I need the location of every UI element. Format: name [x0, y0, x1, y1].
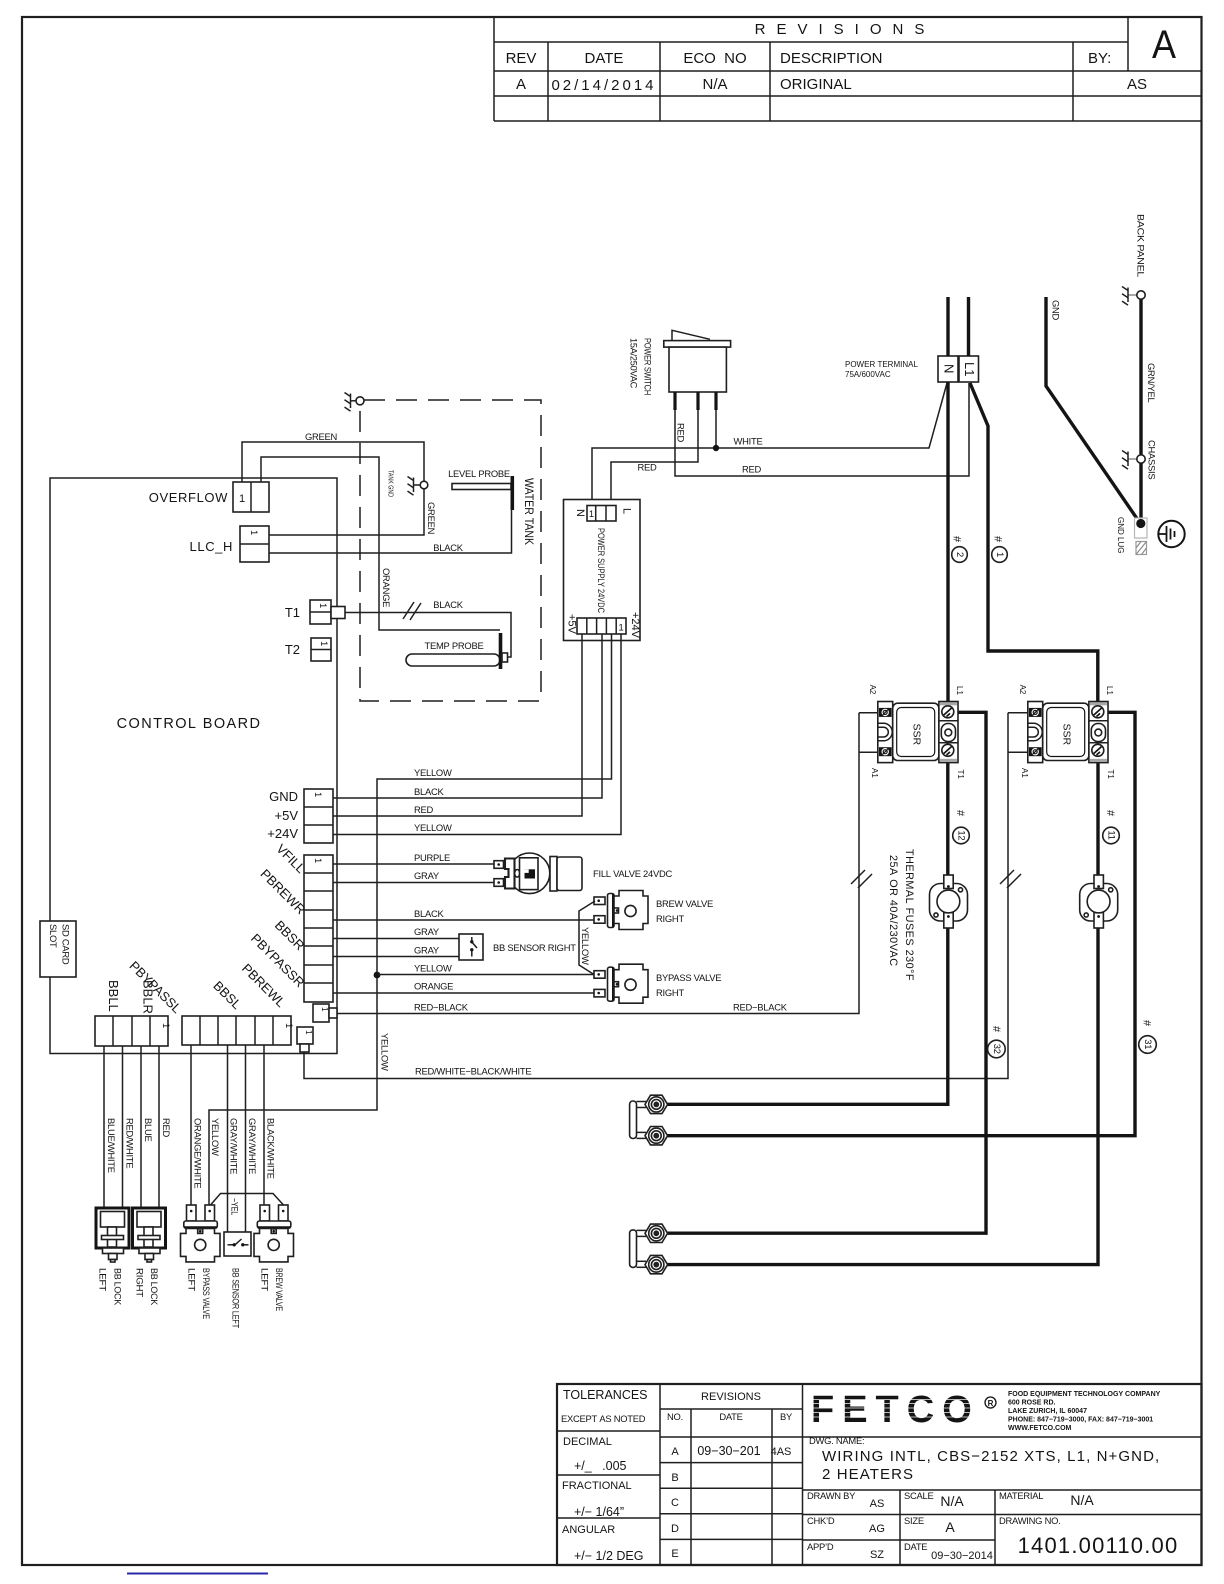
svg-text:SD CARD: SD CARD: [60, 924, 71, 965]
svg-text:1: 1: [313, 858, 324, 863]
wire SSR1 A1 stub: [859, 751, 878, 753]
wire SSR2 A2 stub: [1008, 712, 1028, 714]
svg-text:T1: T1: [1106, 770, 1115, 780]
svg-text:AG: AG: [869, 1523, 885, 1535]
svg-text:CHK’D: CHK’D: [807, 1515, 835, 1526]
svg-text:GND LUG: GND LUG: [1116, 517, 1125, 553]
svg-text:A1: A1: [870, 768, 879, 778]
svg-text:RED: RED: [637, 462, 657, 473]
svg-text:+5V: +5V: [275, 808, 299, 823]
wire red to bb lock right: [158, 1046, 160, 1207]
wire -yel jumper: [211, 1194, 284, 1206]
svg-text:FRACTIONAL: FRACTIONAL: [562, 1480, 632, 1492]
svg-text:GRAY/WHITE: GRAY/WHITE: [247, 1118, 258, 1174]
svg-text:+/_ .005: +/_ .005: [574, 1459, 627, 1473]
svg-text:YELLOW: YELLOW: [580, 927, 591, 965]
bb lock right: [133, 1208, 166, 1262]
svg-text:WWW.FETCO.COM: WWW.FETCO.COM: [1008, 1425, 1072, 1432]
svg-text:DECIMAL: DECIMAL: [563, 1436, 612, 1448]
svg-text:AS: AS: [870, 1498, 885, 1510]
svg-text:N/A: N/A: [940, 1493, 964, 1509]
svg-text:12: 12: [957, 830, 968, 840]
svg-text:L1: L1: [962, 362, 977, 376]
svg-text:ECO NO: ECO NO: [683, 50, 746, 67]
svg-text:2: 2: [955, 552, 966, 557]
water tank dashed box: [360, 400, 541, 701]
svg-text:N/A: N/A: [1070, 1492, 1094, 1508]
wire orange overflow pin2 to temp probe: [261, 457, 500, 630]
wire break on SSR1 control wire: [851, 870, 872, 888]
connector OVERFLOW: [233, 482, 269, 512]
svg-text:02/14/2014: 02/14/2014: [551, 77, 656, 94]
svg-text:GRN/YEL: GRN/YEL: [1146, 363, 1157, 402]
svg-text:ORIGINAL: ORIGINAL: [780, 76, 852, 93]
svg-text:LEVEL PROBE: LEVEL PROBE: [448, 468, 510, 479]
wire gray/white to bb sensor left: [227, 1045, 229, 1232]
svg-text:THERMAL FUSES 230°F: THERMAL FUSES 230°F: [903, 849, 915, 981]
bb lock left: [96, 1208, 129, 1262]
svg-text:SCALE: SCALE: [904, 1490, 934, 1501]
svg-text:BLACK: BLACK: [414, 908, 444, 919]
svg-text:BB LOCK: BB LOCK: [149, 1268, 160, 1306]
svg-text:A: A: [1152, 23, 1176, 67]
svg-text:31: 31: [1143, 1039, 1154, 1049]
wire gray/white 2 to bb sensor left: [245, 1045, 247, 1232]
wire black pbrewr to brew valve right: [333, 919, 594, 921]
wire red switch pin1 to L1: [675, 383, 969, 476]
bb sensor right box: [459, 934, 483, 960]
heater 1: [630, 1095, 668, 1145]
svg-text:TANK GND: TANK GND: [387, 470, 394, 497]
wire purple vfill to fill valve: [333, 863, 494, 865]
svg-text:−YEL: −YEL: [230, 1198, 241, 1215]
FETCO registered mark: [985, 1397, 996, 1408]
svg-text:A: A: [671, 1446, 679, 1458]
svg-text:ORANGE/WHITE: ORANGE/WHITE: [193, 1118, 204, 1188]
wire yellow psu4 to junction: [209, 634, 612, 1205]
svg-text:N: N: [574, 509, 586, 517]
connector BBLL/BBLR: [95, 1016, 168, 1046]
node circle tank corner gnd: [356, 397, 364, 405]
svg-text:EXCEPT AS NOTED: EXCEPT AS NOTED: [561, 1413, 646, 1424]
svg-text:GREEN: GREEN: [305, 431, 337, 442]
svg-text:RED: RED: [414, 804, 434, 815]
psu bottom connector: [577, 618, 626, 634]
svg-text:OVERFLOW: OVERFLOW: [149, 490, 228, 505]
svg-text:A1: A1: [1020, 768, 1029, 778]
svg-text:1: 1: [239, 493, 245, 505]
svg-text:N: N: [942, 364, 957, 373]
svg-text:LEFT: LEFT: [187, 1268, 198, 1292]
svg-text:T2: T2: [285, 642, 300, 657]
wire break on SSR2 control wire: [1000, 870, 1021, 888]
wire break symbol: [403, 602, 421, 620]
svg-text:1: 1: [619, 622, 624, 633]
power switch pins: [673, 392, 676, 410]
svg-text:A2: A2: [1018, 685, 1027, 695]
power switch body: [669, 347, 726, 392]
wire blue/white to bb lock left: [103, 1046, 105, 1207]
wire yellow link brew-bypass: [579, 901, 595, 975]
power switch rocker: [672, 330, 710, 340]
gnd lug: [1135, 518, 1148, 538]
svg-text:BREW VALVE: BREW VALVE: [656, 898, 713, 909]
thermal fuse 2: [1080, 875, 1118, 928]
svg-text:RIGHT: RIGHT: [135, 1268, 146, 1298]
svg-text:AS: AS: [1127, 76, 1147, 93]
brew valve left: [254, 1205, 294, 1262]
svg-text:FOOD EQUIPMENT TECHNOLOGY COMP: FOOD EQUIPMENT TECHNOLOGY COMPANY: [1008, 1391, 1161, 1398]
svg-text:C: C: [671, 1497, 679, 1509]
wire red/white to bb lock left: [122, 1046, 124, 1207]
svg-text:RED/WHITE: RED/WHITE: [125, 1118, 136, 1168]
svg-text:1401.00110.00: 1401.00110.00: [1018, 1533, 1179, 1558]
svg-text:11: 11: [1107, 830, 1118, 839]
connector A (red-black): [313, 1004, 329, 1022]
svg-text:+/− 1/2 DEG: +/− 1/2 DEG: [574, 1549, 643, 1563]
wire SSR1 A2 stub: [859, 712, 878, 714]
svg-text:+/− 1/64”: +/− 1/64”: [574, 1505, 624, 1519]
svg-text:CONTROL BOARD: CONTROL BOARD: [117, 716, 262, 732]
bb sensor left box: [224, 1232, 251, 1256]
wire orange/white to bypass valve left: [190, 1045, 192, 1205]
bypass valve left: [181, 1205, 221, 1262]
junction dot yellow: [374, 972, 381, 979]
svg-text:MATERIAL: MATERIAL: [999, 1490, 1043, 1501]
connector B (red/white-black/white): [297, 1027, 313, 1044]
psu top connector N/L: [587, 506, 616, 522]
ground symbol back panel: [1122, 287, 1137, 306]
heater 2: [630, 1224, 668, 1274]
node circle back panel: [1137, 291, 1145, 299]
svg-text:PURPLE: PURPLE: [414, 852, 450, 863]
svg-text:BYPASS VALVE: BYPASS VALVE: [656, 972, 721, 983]
svg-text:BACK PANEL: BACK PANEL: [1136, 214, 1147, 277]
svg-text:+5V: +5V: [566, 614, 578, 635]
svg-text:1: 1: [161, 1023, 172, 1028]
svg-text:BYPASS VALVE: BYPASS VALVE: [201, 1268, 212, 1319]
svg-text:RED: RED: [161, 1118, 172, 1138]
protective earth symbol: [1158, 521, 1184, 547]
svg-text:#: #: [992, 536, 1004, 543]
svg-text:TEMP PROBE: TEMP PROBE: [425, 640, 484, 651]
wire chassis to gnd lug: [1139, 463, 1142, 520]
ground symbol tank gnd: [408, 477, 421, 496]
svg-text:REVISIONS: REVISIONS: [701, 1391, 761, 1403]
svg-text:GRAY: GRAY: [414, 870, 440, 881]
svg-text:D: D: [671, 1523, 679, 1535]
ground symbol top left of tank: [345, 393, 357, 412]
svg-text:1: 1: [249, 530, 260, 535]
svg-text:WHITE: WHITE: [734, 436, 763, 447]
svg-text:YELLOW: YELLOW: [210, 1118, 221, 1156]
svg-text:BLACK: BLACK: [414, 786, 444, 797]
svg-text:B: B: [671, 1472, 678, 1484]
power terminal L1 box: [959, 356, 979, 382]
power terminal N box: [938, 356, 958, 382]
svg-text:BB SENSOR LEFT: BB SENSOR LEFT: [231, 1268, 242, 1328]
svg-text:BY: BY: [780, 1411, 793, 1422]
svg-text:LLC_H: LLC_H: [190, 539, 233, 554]
svg-text:DATE: DATE: [719, 1411, 742, 1422]
svg-text:75A/600VAC: 75A/600VAC: [845, 370, 891, 379]
wire gray bbsr2 to sensor: [333, 956, 459, 958]
control board outline: [50, 478, 337, 1054]
SSR2: [1028, 702, 1108, 763]
wire red switch pin2 to psu L: [611, 410, 698, 506]
svg-text:1: 1: [320, 1007, 329, 1012]
svg-text:25A OR 40A/230VAC: 25A OR 40A/230VAC: [887, 855, 899, 967]
svg-text:09−30−2014: 09−30−2014: [931, 1550, 993, 1562]
wire SSR2 A1 stub: [1008, 751, 1028, 753]
svg-text:A: A: [516, 76, 526, 93]
wire SSR2 T1 via fuse2 to heater2 bottom: [663, 756, 1098, 1265]
svg-text:GRAY: GRAY: [414, 945, 440, 956]
svg-text:32: 32: [992, 1044, 1003, 1054]
svg-text:BLACK: BLACK: [433, 599, 463, 610]
svg-text:POWER SWITCH: POWER SWITCH: [643, 338, 654, 395]
svg-text:DRAWING NO.: DRAWING NO.: [999, 1515, 1060, 1526]
wire yellow junction to bypass valve right: [377, 974, 594, 976]
svg-text:SIZE: SIZE: [904, 1515, 924, 1526]
svg-text:A: A: [945, 1519, 955, 1535]
wire green overflow pin1: [242, 442, 424, 482]
svg-text:1: 1: [995, 552, 1006, 557]
power supply box: [564, 500, 641, 641]
svg-text:#: #: [1141, 1020, 1153, 1027]
svg-text:FILL VALVE 24VDC: FILL VALVE 24VDC: [593, 868, 673, 879]
revisions table grid: [494, 17, 1201, 121]
svg-text:T1: T1: [956, 770, 965, 780]
svg-text:BLACK: BLACK: [433, 542, 463, 553]
svg-text:BLUE/WHITE: BLUE/WHITE: [106, 1118, 117, 1173]
svg-text:1: 1: [304, 1030, 313, 1035]
svg-text:DATE: DATE: [904, 1541, 927, 1552]
wire SSR1 L1 branch to heater2 top: [663, 712, 986, 1233]
svg-text:REVISIONS: REVISIONS: [755, 21, 936, 38]
svg-text:L1: L1: [1105, 686, 1114, 695]
connector LLC_H: [240, 526, 269, 562]
svg-text:BY:: BY:: [1088, 50, 1111, 67]
svg-text:BB LOCK: BB LOCK: [113, 1268, 124, 1306]
connector PBYPASSL/BBSL/PBREWL: [182, 1016, 291, 1045]
svg-text:SZ: SZ: [870, 1549, 884, 1561]
connector T2: [311, 638, 331, 661]
svg-text:GND: GND: [1051, 300, 1062, 321]
svg-text:POWER TERMINAL: POWER TERMINAL: [845, 360, 918, 369]
wire gray bbsr to sensor: [333, 938, 459, 940]
svg-text:600 ROSE RD.: 600 ROSE RD.: [1008, 1400, 1056, 1407]
connector VFILL strip: [304, 855, 333, 1002]
blue underline mark below frame: [127, 1573, 268, 1575]
wire red +5v to psu1: [333, 634, 582, 816]
SSR1: [878, 702, 958, 763]
svg-text:#: #: [951, 536, 963, 543]
svg-text:REV: REV: [506, 50, 537, 67]
wire white N to psu: [592, 383, 947, 506]
wire black gnd to psu3: [333, 634, 602, 798]
svg-text:YELLOW: YELLOW: [414, 767, 452, 778]
svg-text:YELLOW: YELLOW: [380, 1033, 391, 1071]
svg-text:R: R: [988, 1399, 994, 1408]
svg-text:RED−BLACK: RED−BLACK: [733, 1002, 788, 1013]
svg-text:1: 1: [313, 792, 324, 797]
svg-text:BLUE: BLUE: [143, 1118, 154, 1142]
wire gray to fill valve: [333, 882, 494, 884]
svg-text:L: L: [621, 508, 633, 514]
wire blue to bb lock right: [140, 1046, 142, 1207]
svg-text:DWG. NAME:: DWG. NAME:: [809, 1435, 864, 1446]
svg-text:SLOT: SLOT: [48, 924, 59, 948]
svg-text:LAKE ZURICH, IL 60047: LAKE ZURICH, IL 60047: [1008, 1408, 1087, 1415]
wire black/white to brew valve left: [263, 1045, 265, 1205]
wire black llc_h pin2 to level probe: [269, 510, 512, 553]
svg-text:E: E: [671, 1548, 678, 1560]
svg-text:RED−BLACK: RED−BLACK: [414, 1002, 469, 1013]
svg-text:#: #: [990, 1026, 1002, 1033]
svg-text:GRAY: GRAY: [414, 926, 440, 937]
node circle chassis: [1137, 455, 1145, 463]
connector GND +5V +24V: [304, 789, 333, 843]
power switch cap: [664, 341, 731, 348]
svg-text:1: 1: [319, 641, 330, 646]
wire black T1 to temp probe tip: [345, 613, 511, 658]
grn/yel wire: [1139, 299, 1142, 455]
level probe: [452, 484, 511, 490]
svg-text:+24V: +24V: [267, 826, 298, 841]
wire red-black to SSR1 A1/A2: [337, 713, 859, 1014]
svg-text:09−30−201: 09−30−201: [697, 1444, 760, 1458]
SD card slot: [40, 921, 76, 977]
svg-text:+24V: +24V: [629, 612, 641, 639]
svg-text:LEFT: LEFT: [260, 1268, 271, 1292]
svg-text:GRAY/WHITE: GRAY/WHITE: [229, 1118, 240, 1174]
svg-text:TOLERANCES: TOLERANCES: [563, 1388, 648, 1402]
svg-text:YELLOW: YELLOW: [414, 822, 452, 833]
wire green llc_h pin1: [269, 489, 424, 535]
svg-text:GND: GND: [269, 789, 298, 804]
thermal fuse 1: [930, 875, 968, 928]
svg-text:1: 1: [589, 508, 594, 519]
svg-text:DATE: DATE: [585, 50, 624, 67]
temp probe: [406, 654, 500, 666]
wire SSR2 L1 branch to heater1 bottom: [663, 712, 1135, 1135]
svg-text:2 HEATERS: 2 HEATERS: [822, 1466, 914, 1483]
wire SSR1 T1 via fuse1 to heater1 top: [663, 756, 948, 1104]
mains line into N: [946, 297, 949, 356]
svg-text:BBLL: BBLL: [106, 980, 121, 1012]
mains line into L1: [967, 297, 970, 356]
svg-text:RED/WHITE−BLACK/WHITE: RED/WHITE−BLACK/WHITE: [415, 1066, 531, 1077]
svg-text:WIRING INTL, CBS−2152 XTS, L1,: WIRING INTL, CBS−2152 XTS, L1, N+GND,: [822, 1448, 1160, 1465]
svg-text:SSR: SSR: [910, 724, 922, 746]
wire orange pbypassr to bypass valve: [333, 992, 594, 994]
svg-text:YELLOW: YELLOW: [414, 963, 452, 974]
bypass valve right: [594, 964, 648, 1003]
svg-text:GREEN: GREEN: [426, 502, 437, 534]
svg-text:4AS: 4AS: [771, 1446, 792, 1458]
svg-text:ANGULAR: ANGULAR: [562, 1524, 615, 1536]
svg-text:POWER SUPPLY 24VDC: POWER SUPPLY 24VDC: [596, 528, 606, 613]
svg-text:L1: L1: [955, 686, 964, 695]
svg-text:BB SENSOR RIGHT: BB SENSOR RIGHT: [493, 942, 576, 953]
wire white switch pin3: [715, 410, 717, 448]
svg-text:DRAWN BY: DRAWN BY: [807, 1490, 856, 1501]
svg-text:LEFT: LEFT: [98, 1268, 109, 1292]
svg-text:RIGHT: RIGHT: [656, 987, 684, 998]
svg-text:ORANGE: ORANGE: [381, 568, 392, 607]
svg-text:ORANGE: ORANGE: [414, 981, 453, 992]
fill valve 24vdc: [494, 853, 582, 894]
svg-text:RED: RED: [742, 464, 762, 475]
wire yellow +24v to psu5: [333, 634, 621, 835]
svg-text:N/A: N/A: [702, 76, 727, 93]
svg-text:#: #: [954, 810, 966, 817]
svg-text:RED: RED: [676, 423, 687, 443]
brew valve right: [594, 891, 648, 930]
svg-text:DESCRIPTION: DESCRIPTION: [780, 50, 883, 67]
connector T1: [310, 600, 331, 624]
svg-text:BREW VALVE: BREW VALVE: [274, 1268, 285, 1311]
node circle tank gnd: [420, 481, 428, 489]
svg-text:FETCO: FETCO: [811, 1389, 980, 1431]
junction dot: [713, 445, 719, 451]
svg-text:NO.: NO.: [667, 1411, 683, 1422]
wire #2 N down to SSR1 L1: [946, 382, 949, 703]
wire red/white-black/white to SSR2 A1/A2: [304, 713, 1008, 1079]
svg-text:1: 1: [318, 603, 329, 608]
svg-text:1: 1: [284, 1023, 295, 1028]
svg-text:PHONE: 847−719−3000, FAX: 847−: PHONE: 847−719−3000, FAX: 847−719−3001: [1008, 1417, 1153, 1424]
svg-text:CHASSIS: CHASSIS: [1147, 440, 1158, 479]
svg-text:WATER TANK: WATER TANK: [522, 478, 536, 545]
svg-text:#: #: [1104, 810, 1116, 817]
svg-text:APP’D: APP’D: [807, 1541, 834, 1552]
svg-text:T1: T1: [285, 605, 300, 620]
svg-text:BLACK/WHITE: BLACK/WHITE: [266, 1118, 277, 1179]
ground symbol chassis: [1122, 451, 1137, 470]
gnd wire to lug: [1046, 297, 1140, 523]
title block grid: [557, 1384, 1202, 1565]
svg-text:15A/250VAC: 15A/250VAC: [629, 338, 640, 388]
wire #1 L1 down to SSR2 L1: [970, 383, 1098, 703]
svg-text:A2: A2: [868, 685, 877, 695]
svg-text:RIGHT: RIGHT: [656, 913, 684, 924]
